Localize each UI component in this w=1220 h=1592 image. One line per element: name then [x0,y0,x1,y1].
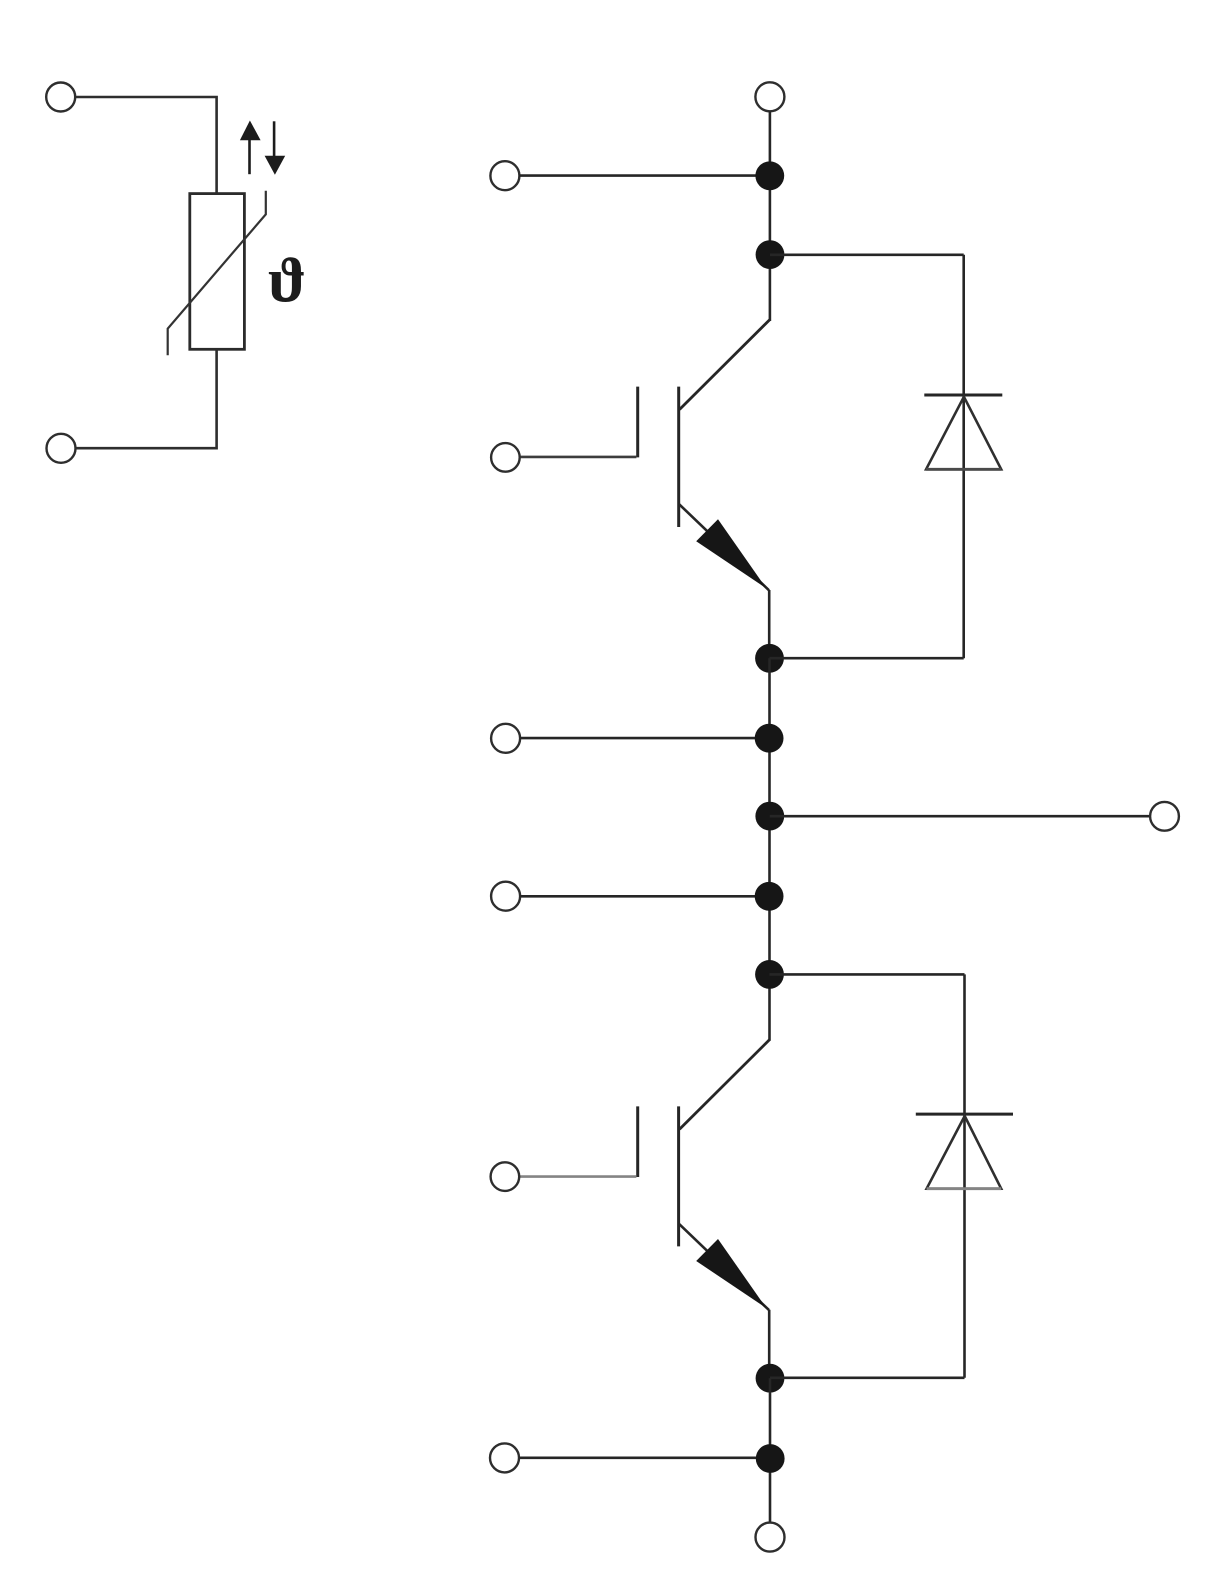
wire [519,174,769,177]
node dot J6 [755,882,784,911]
node dot J4 [755,724,784,753]
arrow up [248,139,251,175]
node dot J7 [755,960,784,989]
arrow down [273,121,276,156]
terminal circle C2 aux [491,882,520,911]
transistor Q2 gate bar [636,1106,639,1177]
transistor Q1 gate bar [636,387,639,458]
wire [76,349,217,448]
transistor Q1 emitter lead [679,504,769,591]
wire AC output [770,815,1150,818]
wire [520,895,769,898]
terminal circle C (top collector) [755,82,784,111]
wire main vertical bottom [769,1378,772,1522]
wire [75,97,216,193]
terminal circle E (bottom emitter) [756,1523,785,1552]
terminal circle G2 [491,1162,520,1191]
wire emitter to node [768,1310,771,1378]
wire main vertical top [769,111,772,321]
transistor Q2 body bar [677,1106,680,1246]
wire gate G1 [520,456,637,459]
diode D2 cathode bar [916,1113,1013,1116]
wire diode D1 branch [962,255,965,658]
diode D1 anode base line [926,468,1001,471]
wire [520,737,769,740]
terminal circle AC [1150,802,1179,831]
NTC diagonal stroke [168,191,266,356]
node dot J3 [755,644,784,673]
transistor Q2 emitter lead [679,1224,769,1311]
terminal circle E2 aux [490,1443,519,1472]
wire main vertical middle [768,658,771,1040]
terminal circle aux collector [490,161,519,190]
node dot J8 [756,1364,785,1393]
wire to diode D2 bottom [770,1377,965,1380]
node dot J5 (AC output node) [755,802,784,831]
wire gate G2 [520,1175,637,1178]
wire to diode D1 bottom [770,657,964,660]
svg-text:ϑ: ϑ [268,245,306,316]
terminal circle G1 [491,443,520,472]
transistor Q2 collector lead [680,1039,770,1129]
wire to diode D1 top [770,254,964,257]
transistor Q2 emitter arrow [696,1239,766,1308]
transistor Q1 body bar [677,387,680,527]
diode D2 anode base line [927,1187,1002,1190]
thermistor R1 terminal circle (top) [46,83,75,112]
node dot J9 [756,1444,785,1473]
wire [519,1457,770,1460]
diode D1 triangle [926,397,1001,470]
thermistor R1 body [190,194,245,350]
node dot J2 [756,240,785,269]
transistor Q1 emitter arrow [696,519,766,588]
wire diode D2 branch [963,974,966,1377]
wire to diode D2 top [770,973,965,976]
terminal circle E1 aux [491,724,520,753]
wire emitter to node [768,590,771,658]
diode D2 triangle [927,1116,1002,1189]
node dot J1 [755,161,784,190]
transistor Q1 collector lead [680,320,770,410]
diode D1 cathode bar [924,394,1002,397]
thermistor R1 terminal circle (bottom) [47,434,76,463]
